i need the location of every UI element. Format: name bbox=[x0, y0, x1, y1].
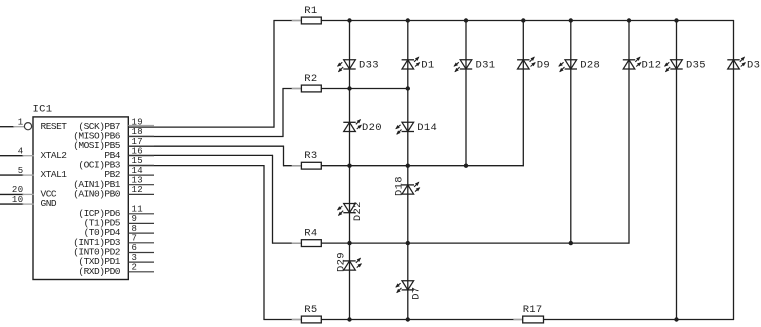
svg-text:9: 9 bbox=[132, 214, 138, 224]
svg-text:3: 3 bbox=[132, 253, 138, 263]
svg-text:8: 8 bbox=[132, 224, 138, 234]
svg-text:20: 20 bbox=[12, 185, 24, 195]
svg-text:D29: D29 bbox=[335, 252, 347, 272]
svg-text:17: 17 bbox=[132, 137, 144, 147]
svg-text:D35: D35 bbox=[686, 60, 706, 72]
svg-text:19: 19 bbox=[132, 117, 144, 127]
svg-text:R4: R4 bbox=[304, 228, 317, 240]
svg-text:D14: D14 bbox=[417, 122, 437, 134]
svg-text:6: 6 bbox=[132, 243, 138, 253]
svg-text:D9: D9 bbox=[537, 60, 550, 72]
svg-text:18: 18 bbox=[132, 127, 144, 137]
svg-text:XTAL2: XTAL2 bbox=[41, 150, 68, 161]
svg-text:7: 7 bbox=[132, 234, 138, 244]
svg-text:D1: D1 bbox=[421, 60, 434, 72]
svg-text:2: 2 bbox=[132, 263, 138, 273]
svg-text:1: 1 bbox=[18, 117, 24, 127]
svg-text:IC1: IC1 bbox=[33, 104, 53, 116]
svg-text:RESET: RESET bbox=[41, 121, 68, 132]
svg-text:10: 10 bbox=[12, 195, 24, 205]
svg-text:D3: D3 bbox=[747, 60, 760, 72]
svg-text:13: 13 bbox=[132, 175, 144, 185]
svg-text:GND: GND bbox=[41, 198, 57, 209]
svg-text:D33: D33 bbox=[359, 60, 379, 72]
svg-text:(AIN0)PB0: (AIN0)PB0 bbox=[73, 189, 121, 200]
svg-text:D18: D18 bbox=[394, 176, 406, 196]
svg-text:5: 5 bbox=[18, 166, 24, 176]
svg-text:(RXD)PD0: (RXD)PD0 bbox=[78, 266, 120, 277]
svg-text:12: 12 bbox=[132, 185, 144, 195]
svg-text:XTAL1: XTAL1 bbox=[41, 169, 68, 180]
svg-text:R3: R3 bbox=[304, 150, 317, 162]
svg-text:D22: D22 bbox=[352, 201, 364, 221]
svg-text:D7: D7 bbox=[411, 287, 423, 300]
svg-text:14: 14 bbox=[132, 166, 144, 176]
svg-text:11: 11 bbox=[132, 205, 144, 215]
svg-text:R2: R2 bbox=[304, 73, 317, 85]
svg-text:D12: D12 bbox=[642, 60, 662, 72]
svg-text:R5: R5 bbox=[304, 304, 317, 316]
svg-text:D20: D20 bbox=[362, 122, 382, 134]
svg-text:D28: D28 bbox=[580, 60, 600, 72]
svg-text:R1: R1 bbox=[304, 5, 317, 17]
svg-text:R17: R17 bbox=[523, 304, 543, 316]
svg-text:D31: D31 bbox=[476, 60, 496, 72]
svg-text:4: 4 bbox=[18, 146, 24, 156]
svg-text:16: 16 bbox=[132, 146, 144, 156]
svg-text:15: 15 bbox=[132, 156, 144, 166]
